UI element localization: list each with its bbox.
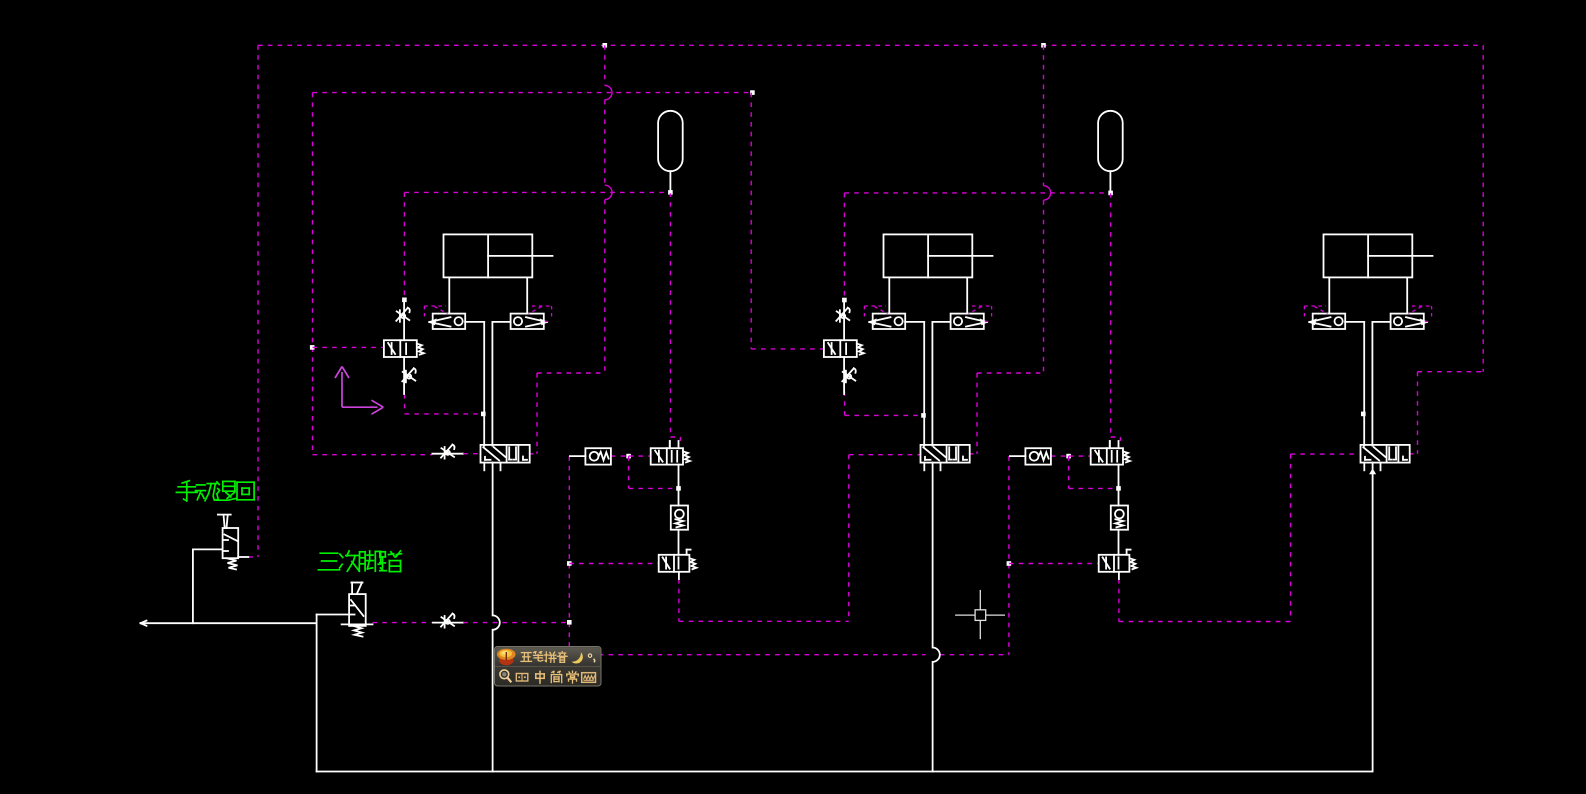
wire: drop to valve assembly 2 x=751.2 xyxy=(750,93,752,349)
pilot valve v2-2 xyxy=(1099,555,1130,572)
roller limit valve 2a xyxy=(873,314,906,329)
wire: main valve 2 bottom stubs xyxy=(923,463,925,471)
node at capsule 1 (670.4,192.4) xyxy=(668,190,673,195)
wire: frame B left x=312.5 xyxy=(312,93,314,455)
air reservoir capsule 1 xyxy=(658,111,683,171)
actuation dashes 1a xyxy=(424,305,446,307)
wire: capsule 1 drop x=670.4 xyxy=(669,192,671,437)
jump: x=492.6 over y=622.6 xyxy=(493,615,500,629)
node at (312.2,347.4) xyxy=(310,345,315,350)
actuation dashes 2b xyxy=(972,305,992,307)
node on rail at x=604.8 xyxy=(603,43,608,48)
wire: group2 jog y=373 xyxy=(977,372,1044,374)
wire: bottom supply rail y=771.5 xyxy=(317,771,1372,773)
flow control + pilot valve assembly 2 xyxy=(843,300,845,340)
wire: dashed into main valve 1 left port xyxy=(463,453,481,455)
wire: frame B top y=92.6 xyxy=(313,92,753,94)
wire: roller 3b output to main valve xyxy=(1372,321,1390,323)
wire: cv2 to v3-2 xyxy=(1051,455,1069,457)
wire: group3 pilot drop x=1483.2 xyxy=(1482,45,1484,371)
node at capsule 2 (1110.6,192.9) xyxy=(1108,191,1113,196)
node at (923.5,415.4) xyxy=(921,413,926,418)
wire: v2-2 output to group3 valve xyxy=(1118,579,1120,622)
cylinder 3 xyxy=(1324,234,1413,277)
UCS icon arrows xyxy=(341,372,343,407)
IME text wubi-pinyin xyxy=(521,652,531,654)
jump: x=1043.5 over y=192.9 xyxy=(1044,186,1051,200)
node at (752.4,92.6) xyxy=(750,90,755,95)
wire: manual valve left port xyxy=(193,548,223,550)
wire: cv2 branch down to regulator xyxy=(1068,456,1070,488)
roller limit valve 2b xyxy=(951,314,984,329)
throttle star at main valve 1 inlet xyxy=(441,445,453,458)
IME input-method toolbar xyxy=(495,647,602,687)
label: three foot presses (Chinese) xyxy=(320,552,337,554)
wire: group1 pilot drop x=604.8 xyxy=(604,45,606,85)
node at (678.5,488.4) xyxy=(676,486,681,491)
wire: group3 into valve right port xyxy=(1409,453,1418,455)
wire: cv1 branch down to regulator xyxy=(628,456,630,488)
wire: foot valve output dashed y=622.6 xyxy=(373,622,434,624)
wire: roller 1a output to main valve xyxy=(465,321,484,323)
wire: capsule 2 stub into valve v3-2 xyxy=(1109,441,1111,448)
wire: main valve 1 bottom stubs xyxy=(483,463,485,471)
actuation dashes 2a xyxy=(864,305,886,307)
jump: x=604.8 over y=92.6 xyxy=(605,85,612,99)
wire: main pilot rail (manual return bus) y=45 xyxy=(258,44,1483,46)
cylinder 2 xyxy=(884,234,973,277)
wire: frame C1 top y=192.4 xyxy=(404,191,670,193)
node at (404.4,299.8) xyxy=(402,298,407,303)
jump: x=604.8 over y=192.4 xyxy=(605,185,612,199)
wire: foot output throttle segment xyxy=(433,622,463,624)
main directional valve 3 xyxy=(1361,445,1410,463)
cylinder 1 xyxy=(444,234,533,277)
wire: capsule 2 drop x=1110.6 xyxy=(1110,193,1112,437)
node at (569.3,622.3) xyxy=(567,620,572,625)
jump: x=932.6 over y=654.7 xyxy=(933,648,940,662)
wire: rail1 x=569.3 down xyxy=(568,456,570,650)
wire: group2 jog drop x=977 xyxy=(976,373,978,454)
wire: supply line y=623.2 xyxy=(141,622,317,624)
node at (569.3,563.5) xyxy=(567,561,572,566)
throttle star on foot output xyxy=(441,614,453,627)
IME keyboard icon xyxy=(582,673,596,683)
wire: roller 3a output to main valve xyxy=(1345,321,1364,323)
wire: bottom cascade y=654.7 xyxy=(569,654,925,656)
pilot valve v3-1 xyxy=(651,448,683,464)
label: manual return (Chinese) xyxy=(182,481,189,483)
wire: rail left drop x=258 xyxy=(257,45,259,557)
pilot valve v2-1 xyxy=(659,555,690,572)
actuation dashes 3b xyxy=(1412,305,1432,307)
wire: group1 into valve right port xyxy=(529,453,537,455)
wire: group3 jog y=371.7 xyxy=(1418,371,1484,373)
wire: v2-1 output to group2 valve xyxy=(678,579,680,621)
node at (628.6,456.1) xyxy=(626,454,631,459)
roller limit valve 3b xyxy=(1391,314,1424,329)
check valve 2 xyxy=(1010,455,1026,457)
roller limit valve 1a xyxy=(433,314,466,329)
wire: supply into main valve 1 (throttle segment) xyxy=(432,453,463,455)
node at (844.4,300) xyxy=(842,298,847,303)
node at (483.3,413.9) xyxy=(481,412,486,417)
wire: pilot to valve assembly 1 xyxy=(313,346,384,348)
node at (1068.6,456.1) xyxy=(1066,454,1071,459)
wire: main valve 3 bottom stubs xyxy=(1363,463,1365,471)
actuation dashes 1b xyxy=(532,305,552,307)
IME magnifier icon xyxy=(500,670,511,682)
wire: group2 into valve right port xyxy=(969,453,977,455)
wire: frame C1 left x=404.4 xyxy=(403,192,405,299)
wire: foot output dashed to rail1 xyxy=(463,622,569,624)
wire: supply riser x=316.6 xyxy=(316,615,318,772)
wire: roller 1b output to main valve xyxy=(492,321,510,323)
IME book icon xyxy=(516,674,528,682)
wire: frame C2 left x=844.4 xyxy=(843,193,845,300)
wire: rail2 x=1008.9 xyxy=(1008,456,1010,655)
wire: frame B bottom y=454.7 xyxy=(313,454,433,456)
manual return valve xyxy=(218,514,231,516)
actuation dashes 3a xyxy=(1304,305,1326,307)
wire: v2-1 left pilot y=563.5 xyxy=(569,563,658,565)
roller limit valve 3a xyxy=(1313,314,1346,329)
wire: cv1 to v3-1 xyxy=(611,455,629,457)
main directional valve 1 xyxy=(481,445,530,463)
roller limit valve 1b xyxy=(511,314,544,329)
pilot valve v3-2 xyxy=(1091,448,1123,464)
wire: roller 2b output to main valve xyxy=(932,321,950,323)
node at (1008.9,563.5) xyxy=(1007,561,1012,566)
node at (1118.5,488.4) xyxy=(1116,486,1121,491)
wire: group2 pilot drop x=1043.5 xyxy=(1043,45,1045,185)
pressure regulator 1 xyxy=(671,506,688,530)
wire: v2-2 left pilot y=563.5 xyxy=(1009,563,1099,565)
foot pedal valve xyxy=(351,582,362,584)
air reservoir capsule 2 xyxy=(1098,111,1123,171)
wire: group1 jog y=373 xyxy=(537,372,605,374)
wire: frame C2 top y=192.9 xyxy=(844,192,1110,194)
IME mode glyphs xyxy=(536,673,544,675)
wire: pilot to valve assembly 2 y=348.9 xyxy=(751,348,823,350)
wire: group1 jog drop x=537 xyxy=(536,373,538,454)
supply arrowhead into valve 3 xyxy=(1369,468,1376,474)
wire: foot valve left port xyxy=(317,614,350,616)
wire: group2 supply drop x=932.6 xyxy=(932,463,934,648)
wire: capsule 1 stub into valve v3-1 xyxy=(669,441,671,448)
check valve 1 xyxy=(570,455,586,457)
main directional valve 2 xyxy=(921,445,970,463)
supply arrow at left end xyxy=(141,621,147,624)
flow control + pilot valve assembly 1 xyxy=(403,300,405,340)
wire: rail to manual valve port xyxy=(248,556,258,558)
node at (1363.3,413.9) xyxy=(1361,412,1366,417)
wire: assembly 1 lower pilot xyxy=(404,394,406,414)
wire: group1 exhaust/supply drop x=492.6 xyxy=(492,463,494,616)
wire: group3 jog drop x=1417.5 xyxy=(1417,372,1419,454)
wire: group3 supply drop x=1372.6 xyxy=(1372,463,1374,772)
node on rail at x=1043.5 xyxy=(1041,43,1046,48)
pressure regulator 2 xyxy=(1111,506,1128,530)
IME moon icon xyxy=(572,652,595,663)
wire: assembly 2 lower pilot xyxy=(844,391,846,415)
crosshair cursor xyxy=(955,614,975,616)
wire: roller 2a output to main valve xyxy=(905,321,924,323)
wire: manual valve right port xyxy=(238,556,248,558)
